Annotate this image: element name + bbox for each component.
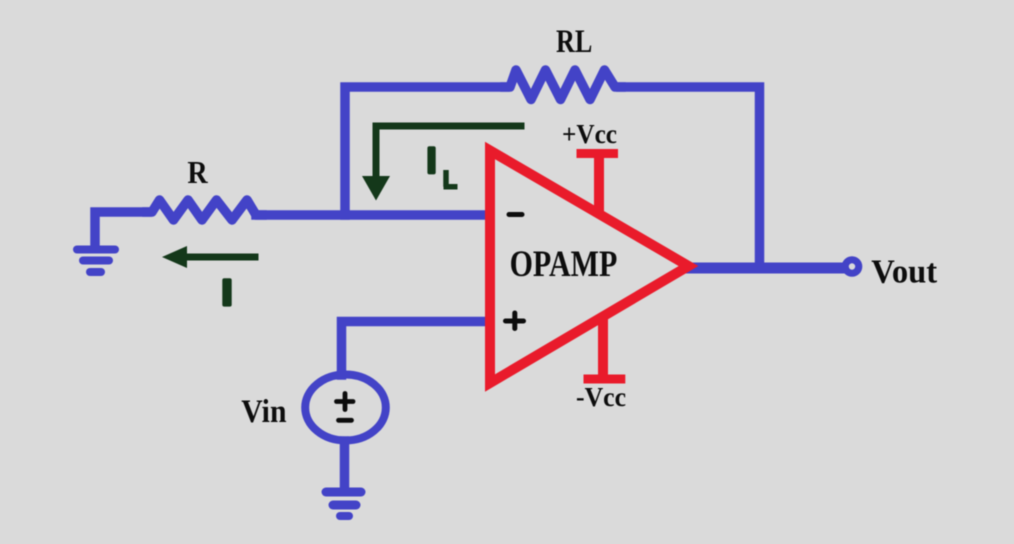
svg-text:Vout: Vout xyxy=(871,253,938,290)
svg-text:Vin: Vin xyxy=(241,393,286,430)
svg-text:+Vcc: +Vcc xyxy=(562,118,617,149)
svg-text:OPAMP: OPAMP xyxy=(510,244,618,285)
svg-text:R: R xyxy=(187,155,208,190)
svg-text:-Vcc: -Vcc xyxy=(576,381,626,412)
svg-text:RL: RL xyxy=(556,24,592,60)
